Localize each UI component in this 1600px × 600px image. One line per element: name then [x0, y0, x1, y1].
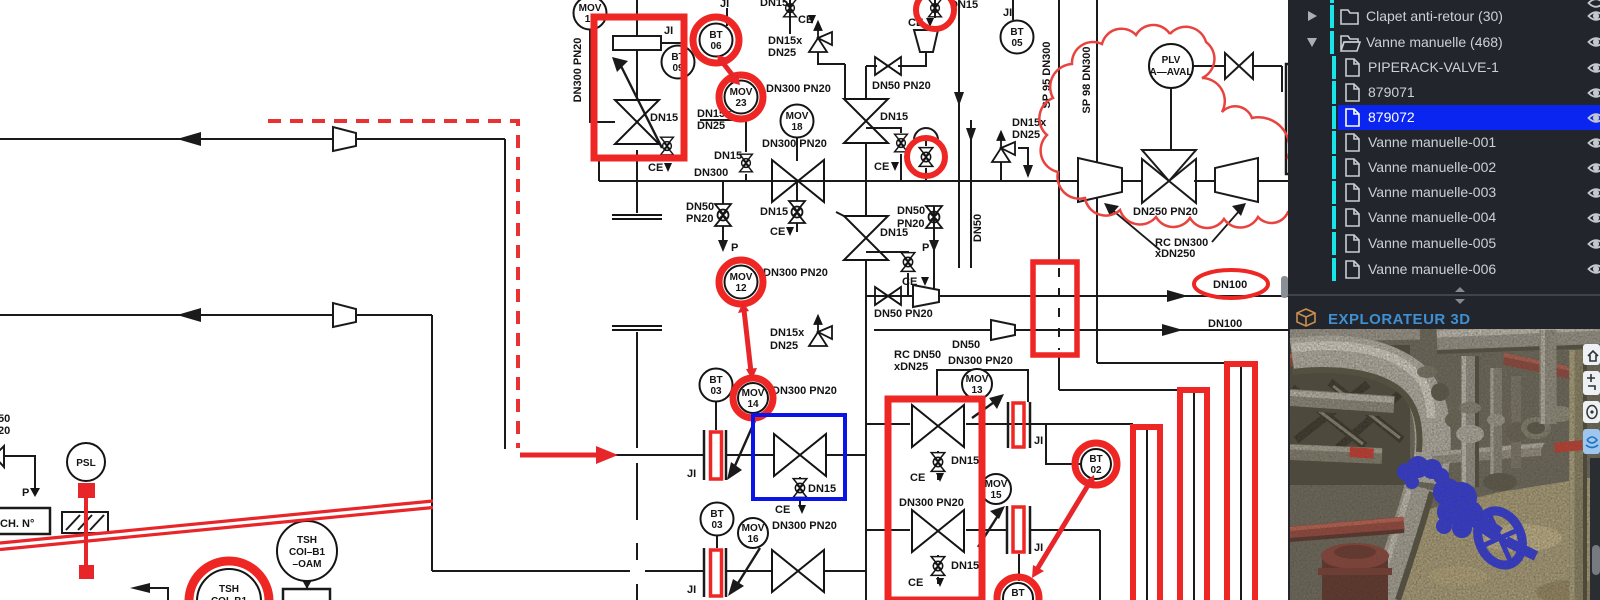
svg-text:SP 98 DN300: SP 98 DN300: [1081, 46, 1093, 113]
wire vertical x1097 to y363: [1096, 0, 1098, 363]
svg-text:05: 05: [1011, 38, 1023, 49]
instrument TSH COI-B1 bottom: [197, 569, 261, 600]
arrow diag to flange y530: [978, 514, 999, 547]
tool buttons: [1583, 344, 1600, 454]
wire cloud main line y181: [1122, 180, 1142, 182]
valve bowtie R2 bottom x938 y531: [912, 510, 964, 552]
arrow left bottom-left: [130, 583, 150, 593]
red arrow into JI: [520, 453, 600, 458]
folder open icon: [1341, 36, 1360, 51]
divider: [1288, 294, 1600, 296]
top horizontal pipe: [1437, 334, 1600, 341]
wire MOV13 bypass y370: [937, 370, 1028, 402]
svg-text:DN50 PN20: DN50 PN20: [874, 308, 933, 320]
wire actuator JI stub: [661, 42, 683, 44]
svg-text:03: 03: [711, 520, 723, 531]
wire vent hook + valve x926: [925, 140, 927, 146]
red paint right: [1554, 440, 1583, 453]
svg-text:Vanne manuelle (468): Vanne manuelle (468): [1366, 34, 1503, 50]
mid horizontal pipe right: [1432, 448, 1556, 458]
svg-text:MOV: MOV: [742, 523, 765, 534]
row Vanne manuelle-002: [1332, 156, 1336, 179]
svg-text:DN15: DN15: [951, 560, 979, 572]
PSL triangle at left edge: [0, 446, 4, 467]
instrument BT 03 b: [701, 503, 734, 536]
valve small R2 top stem: [931, 453, 945, 472]
wire blue box valve stem: [799, 477, 801, 478]
valve small ringed x935 top: [929, 0, 942, 17]
svg-text:02: 02: [1090, 465, 1102, 476]
arrow left on y139: [177, 132, 201, 146]
cloud reducer left: [1078, 158, 1122, 202]
valve small R2 bottom stem: [931, 557, 945, 576]
svg-text:DN300 PN20: DN300 PN20: [772, 385, 837, 397]
wire MOV11 drop into valve box: [636, 0, 638, 36]
wire left small vertical under red box: [598, 158, 600, 181]
row Vanne manuelle-006: [1332, 258, 1336, 281]
row Vanne manuelle-001: [1332, 131, 1336, 154]
red box R1: [594, 17, 684, 158]
red ring MOV12: [719, 260, 763, 304]
schematic scrollbar nub: [1281, 276, 1288, 298]
instrument BT 05: [1001, 21, 1034, 54]
red dashes inside R3: [1058, 268, 1060, 350]
svg-text:BT: BT: [1089, 454, 1102, 465]
wire CE drain at 901: [866, 128, 901, 133]
arrow down x959: [954, 92, 964, 106]
wire relief top branch: [818, 52, 845, 64]
valve small at R1 right: [661, 137, 674, 155]
wire y424 bowtie line in R2: [866, 423, 910, 425]
blue handwheel: [1469, 504, 1530, 572]
valve bowtie y571 x798: [772, 550, 824, 592]
svg-text:BT: BT: [709, 375, 722, 386]
valve small ringed x926 y157: [919, 148, 933, 167]
svg-text:13: 13: [971, 385, 983, 396]
row 879072 selected: [1332, 106, 1336, 129]
red ring BT bottom: [997, 577, 1039, 600]
wire MOV11 stem: [590, 30, 615, 122]
svg-text:BT: BT: [1010, 27, 1023, 38]
instrument BT 09: [662, 46, 695, 79]
red box R3: [1033, 262, 1077, 355]
wire JI stub top right: [1012, 0, 1014, 20]
svg-text:DN15: DN15: [880, 227, 908, 239]
red flange small rects: [711, 432, 722, 479]
red box R2: [888, 399, 982, 600]
row2 cyan bar: [1330, 31, 1334, 54]
flange JI y571: [704, 548, 726, 597]
svg-text:DN15: DN15: [760, 0, 788, 9]
actuator box R1: [613, 36, 661, 50]
arrows black: [130, 57, 1246, 596]
svg-text:–OAM: –OAM: [293, 559, 322, 570]
svg-text:PSL: PSL: [76, 458, 95, 469]
right grey vertical pipe: [1540, 330, 1557, 424]
wire PSL left cluster: [4, 456, 35, 488]
svg-text:RC DN50: RC DN50: [894, 349, 941, 361]
svg-text:CE: CE: [910, 472, 925, 484]
blue valve body: [1433, 478, 1461, 506]
svg-text:CE: CE: [902, 276, 917, 288]
svg-text:DN300 PN20: DN300 PN20: [763, 267, 828, 279]
red tall bar 1: [1133, 427, 1160, 600]
wire x723 drop cluster: [722, 181, 724, 204]
svg-text:P: P: [731, 242, 738, 254]
svg-text:DN50: DN50: [972, 214, 984, 242]
valve small top x746: [740, 154, 753, 172]
red tall bar 3: [1227, 364, 1255, 600]
svg-text:P: P: [22, 487, 29, 499]
instrument BT 02: [1081, 449, 1111, 479]
wire top small cluster: [700, 120, 746, 152]
svg-text:15: 15: [990, 490, 1002, 501]
arrow RC DN300 right: [1212, 210, 1240, 242]
svg-text:879071: 879071: [1368, 84, 1415, 100]
svg-text:MOV: MOV: [730, 87, 753, 98]
svg-text:MOV: MOV: [966, 374, 989, 385]
svg-text:DN300 PN20: DN300 PN20: [572, 38, 584, 103]
svg-text:DN25: DN25: [697, 120, 725, 132]
dark red drum: [1322, 556, 1388, 600]
valve small x934 y217: [926, 206, 942, 228]
svg-text:DN50 PN20: DN50 PN20: [872, 80, 931, 92]
black box at schematic right edge: [1286, 64, 1290, 174]
svg-text:xDN250: xDN250: [1155, 248, 1195, 260]
row 879071: [1332, 81, 1336, 104]
floor: [1388, 476, 1600, 600]
svg-text:MOV: MOV: [742, 388, 765, 399]
svg-text:CE: CE: [648, 162, 663, 174]
instrument BT 06: [700, 24, 733, 57]
svg-text:DN300: DN300: [694, 167, 728, 179]
svg-text:DN25: DN25: [770, 340, 798, 352]
red cloud: [1039, 25, 1298, 228]
valve bowtie R2 top x938 y426: [912, 405, 964, 447]
svg-text:DN300 PN20: DN300 PN20: [899, 497, 964, 509]
row1 cyan bar: [1330, 5, 1334, 28]
svg-text:Vanne manuelle-005: Vanne manuelle-005: [1368, 235, 1496, 251]
svg-text:DN25: DN25: [768, 47, 796, 59]
instrument MOV 12: [725, 266, 758, 299]
row Vanne manuelle-003: [1332, 181, 1336, 204]
arrow diag flange y571: [735, 548, 760, 588]
top-left red pipe: [1290, 357, 1348, 360]
svg-text:A—AVAL: A—AVAL: [1150, 67, 1193, 78]
instrument PSL: [67, 443, 105, 481]
wire BT03b stub: [716, 536, 718, 548]
red ring BT02: [1075, 443, 1117, 485]
row caret down: [1308, 11, 1317, 21]
svg-text:xDN25: xDN25: [894, 361, 928, 373]
svg-text:JI: JI: [720, 0, 729, 10]
svg-text:DN250 PN20: DN250 PN20: [1133, 206, 1198, 218]
svg-text:DN50: DN50: [952, 339, 980, 351]
instrument PLV A-AVAL: [1149, 44, 1193, 88]
svg-text:06: 06: [710, 41, 722, 52]
svg-text:COI–B1: COI–B1: [289, 547, 326, 558]
red ring TSH: [189, 561, 269, 600]
pipe lines inside red bars: [1147, 363, 1241, 600]
svg-text:DN300 PN20: DN300 PN20: [772, 520, 837, 532]
svg-text:JI: JI: [664, 25, 673, 37]
svg-text:BT: BT: [710, 509, 723, 520]
svg-text:DN50: DN50: [686, 201, 714, 213]
instrument MOV 18: [781, 105, 814, 138]
svg-text:Clapet anti-retour (30): Clapet anti-retour (30): [1366, 8, 1503, 24]
arrow TSH OAM tip: [302, 580, 312, 589]
svg-text:DN15: DN15: [880, 111, 908, 123]
arrow down P x723: [718, 240, 728, 252]
svg-text:DN15: DN15: [808, 483, 836, 495]
arrow right on y330: [1162, 324, 1183, 336]
red dashed route: [268, 121, 518, 448]
instrument BT bottom: [1003, 583, 1033, 600]
wire vertical x432: [431, 315, 433, 571]
svg-text:MOV: MOV: [579, 3, 602, 14]
top-left top pipe: [1290, 333, 1420, 336]
right red diagonal pipe: [1504, 359, 1600, 379]
svg-text:12: 12: [735, 283, 747, 294]
svg-text:DN15x: DN15x: [770, 327, 805, 339]
wire relief at 1001: [1000, 162, 1002, 181]
red ring valve 935: [916, 0, 954, 29]
valve gate V inside red box R1: [615, 100, 659, 144]
wire PLV link: [1170, 89, 1172, 150]
instrument MOV 14: [738, 383, 768, 413]
svg-text:DN100: DN100: [1213, 279, 1247, 291]
relief valve x818: [809, 22, 832, 52]
svg-text:DN100: DN100: [1208, 318, 1242, 330]
relief valve x1001: [992, 132, 1015, 162]
wire bottom-left L: [137, 588, 168, 600]
flange JI y455: [704, 430, 726, 480]
svg-text:JI: JI: [687, 584, 696, 596]
svg-text:BT: BT: [709, 30, 722, 41]
row Vanne manuelle-004: [1332, 206, 1336, 229]
folder closed icon: [1341, 10, 1358, 24]
red paint mark left: [1349, 447, 1374, 459]
valve small x901 y143: [895, 134, 908, 152]
valve small x908 y262: [901, 253, 915, 272]
reducer y330 x1003: [991, 320, 1015, 340]
center vertical pipes: [1461, 356, 1479, 487]
big elbow pipe: [1292, 354, 1433, 483]
svg-text:18: 18: [791, 122, 803, 133]
row Vanne manuelle-005: [1332, 232, 1336, 255]
red double diagonal: [0, 501, 433, 550]
sidebar: [1281, 0, 1600, 600]
break bars x637 y217: [612, 215, 662, 219]
cloud control valve: [1142, 150, 1196, 203]
red ring valve 926: [907, 138, 945, 176]
reducer on y315: [333, 303, 356, 327]
arrow diag to flange y424: [972, 400, 997, 418]
upper-left grey pipe: [1290, 399, 1394, 406]
misc fittings: [1431, 383, 1449, 401]
svg-text:PIPERACK-VALVE-1: PIPERACK-VALVE-1: [1368, 59, 1499, 75]
svg-text:16: 16: [747, 534, 759, 545]
wire main header y181: [599, 180, 1077, 182]
valve small x723 y215: [715, 204, 731, 226]
svg-text:DN15: DN15: [760, 206, 788, 218]
top partial row: [1330, 0, 1334, 3]
svg-text:20: 20: [0, 425, 10, 437]
svg-text:23: 23: [735, 98, 747, 109]
svg-text:Vanne manuelle-004: Vanne manuelle-004: [1368, 209, 1496, 225]
svg-text:DN25: DN25: [1012, 129, 1040, 141]
row PIPERACK-VALVE-1: [1332, 56, 1336, 79]
red ring MOV14: [733, 378, 773, 418]
svg-text:CE: CE: [770, 226, 785, 238]
hatched box: [62, 512, 108, 533]
svg-text:DN300 PN20: DN300 PN20: [766, 83, 831, 95]
right dark strip: [1590, 458, 1600, 600]
svg-text:MOV: MOV: [730, 272, 753, 283]
svg-text:CE: CE: [874, 161, 889, 173]
blue highlight box: [753, 415, 845, 499]
wire twin verticals x959 x971: [958, 0, 960, 181]
base: [1290, 329, 1600, 600]
wire bottom y571: [432, 570, 630, 572]
relief valve x818 y346: [809, 316, 832, 346]
selected row highlight: [1338, 105, 1600, 130]
svg-text:DN15: DN15: [951, 455, 979, 467]
svg-text:DN15: DN15: [650, 112, 678, 124]
red ring BT06: [693, 17, 739, 63]
row2 caret: [1307, 38, 1317, 47]
red ring MOV23: [719, 75, 763, 119]
blue arm: [1457, 504, 1503, 541]
valve bowtie y181 x798: [772, 160, 824, 202]
wire y330 branch: [874, 329, 990, 331]
arrow left on y315: [177, 308, 201, 322]
wire x797 drop cluster: [796, 181, 798, 201]
svg-text:JI: JI: [1034, 435, 1043, 447]
3d panel: [1288, 287, 1600, 600]
svg-text:JI: JI: [1034, 542, 1043, 554]
svg-text:DN15x: DN15x: [768, 35, 803, 47]
svg-text:Vanne manuelle-006: Vanne manuelle-006: [1368, 261, 1496, 277]
instrument MOV 13: [962, 369, 992, 399]
svg-text:TSH: TSH: [219, 584, 239, 595]
cloud reducer right: [1215, 158, 1258, 202]
small CE arrows: [30, 15, 944, 587]
red PSL line: [84, 490, 88, 572]
arrow diag flange y455: [734, 416, 757, 468]
svg-text:P: P: [922, 242, 929, 254]
file rows: [1332, 56, 1499, 281]
instrument MOV 16: [738, 518, 768, 548]
svg-text:DN300 PN20: DN300 PN20: [762, 138, 827, 150]
wire small valve stems in R2: [937, 451, 939, 452]
svg-text:MOV: MOV: [985, 479, 1008, 490]
arrow down x971: [966, 128, 976, 142]
instrument MOV 11: [574, 0, 607, 30]
svg-text:Vanne manuelle-003: Vanne manuelle-003: [1368, 184, 1496, 200]
wire DN50 P drop at x934: [933, 206, 935, 296]
svg-text:COI–B1: COI–B1: [211, 596, 248, 600]
valve bowtie near PLV: [1225, 53, 1253, 79]
valve small blue box stem: [793, 479, 807, 498]
arrow down x1028: [1023, 165, 1033, 178]
arrow down P x934: [929, 240, 939, 252]
svg-text:CH. N°: CH. N°: [0, 518, 34, 530]
svg-text:PN20: PN20: [686, 213, 714, 225]
cube icon: [1297, 309, 1315, 326]
arrow RC DN300 left: [1110, 208, 1160, 250]
svg-text:50: 50: [0, 413, 10, 425]
eye icons: [1589, 0, 1600, 273]
flange JI y530: [1007, 506, 1030, 554]
wire y390 to middle pipe: [1059, 389, 1180, 391]
wire y571 bowtie: [726, 570, 772, 572]
red tall bar 2: [1180, 390, 1207, 600]
svg-text:Vanne manuelle-001: Vanne manuelle-001: [1368, 134, 1496, 150]
wire CE drain x908: [866, 252, 908, 253]
svg-text:CE: CE: [908, 577, 923, 589]
svg-text:DN15: DN15: [714, 150, 742, 162]
arrow diag in red box R1: [620, 64, 662, 148]
red arrow MOV12-MOV14: [738, 302, 757, 380]
svg-text:DN300 PN20: DN300 PN20: [948, 355, 1013, 367]
valve bowtie header top x866 y121: [844, 99, 888, 143]
wire y530 R2: [866, 529, 910, 531]
valve small top x790: [784, 0, 797, 17]
svg-text:JI: JI: [687, 468, 696, 480]
wire y424 left to pipe1: [1008, 423, 1133, 425]
svg-text:CE: CE: [775, 504, 790, 516]
break bars x637 y328: [612, 326, 662, 330]
flange JI y424: [1008, 402, 1030, 448]
CH N box: [0, 508, 50, 534]
svg-text:MOV: MOV: [786, 111, 809, 122]
svg-text:TSH: TSH: [297, 535, 317, 546]
instrument BT 03 a: [700, 369, 733, 402]
reducer y296 x926: [913, 285, 939, 307]
wire y455: [613, 454, 704, 456]
valve gateX x888 y66: [875, 57, 901, 75]
svg-text:DN50: DN50: [897, 205, 925, 217]
wire header vertical x866: [865, 66, 867, 99]
wire flange to BT02: [1030, 424, 1081, 464]
reducer on y139: [333, 127, 356, 151]
wire second horizontal: [0, 314, 432, 316]
red oval DN100: [1194, 270, 1268, 298]
instrument MOV 15: [981, 474, 1011, 504]
wire vertical from top-left line: [504, 139, 506, 449]
svg-text:EXPLORATEUR 3D: EXPLORATEUR 3D: [1328, 311, 1471, 328]
wire bowtie2 elbow: [836, 212, 844, 216]
svg-text:879072: 879072: [1368, 109, 1415, 125]
instrument MOV 23: [725, 81, 758, 114]
wire DN15 top drop: [789, 0, 791, 34]
svg-text:03: 03: [710, 386, 722, 397]
wire bowtie top link: [844, 64, 846, 99]
TSH OAM box: [283, 589, 330, 600]
svg-text:PLV: PLV: [1162, 55, 1181, 66]
wire vertical x637 segments: [636, 332, 638, 448]
right tan pipe: [1569, 350, 1587, 600]
left mid grey pipe: [1290, 452, 1382, 456]
wire y455 blue box line: [726, 454, 773, 456]
wire TSH OAM drop: [306, 581, 308, 589]
wire main top-left horizontal: [0, 138, 505, 140]
valve small x797 y212: [789, 201, 805, 223]
dark lattice zone upper left: [1290, 345, 1410, 485]
blue valve collar: [1397, 456, 1503, 541]
instrument TSH COI-B1 -OAM: [277, 521, 337, 581]
